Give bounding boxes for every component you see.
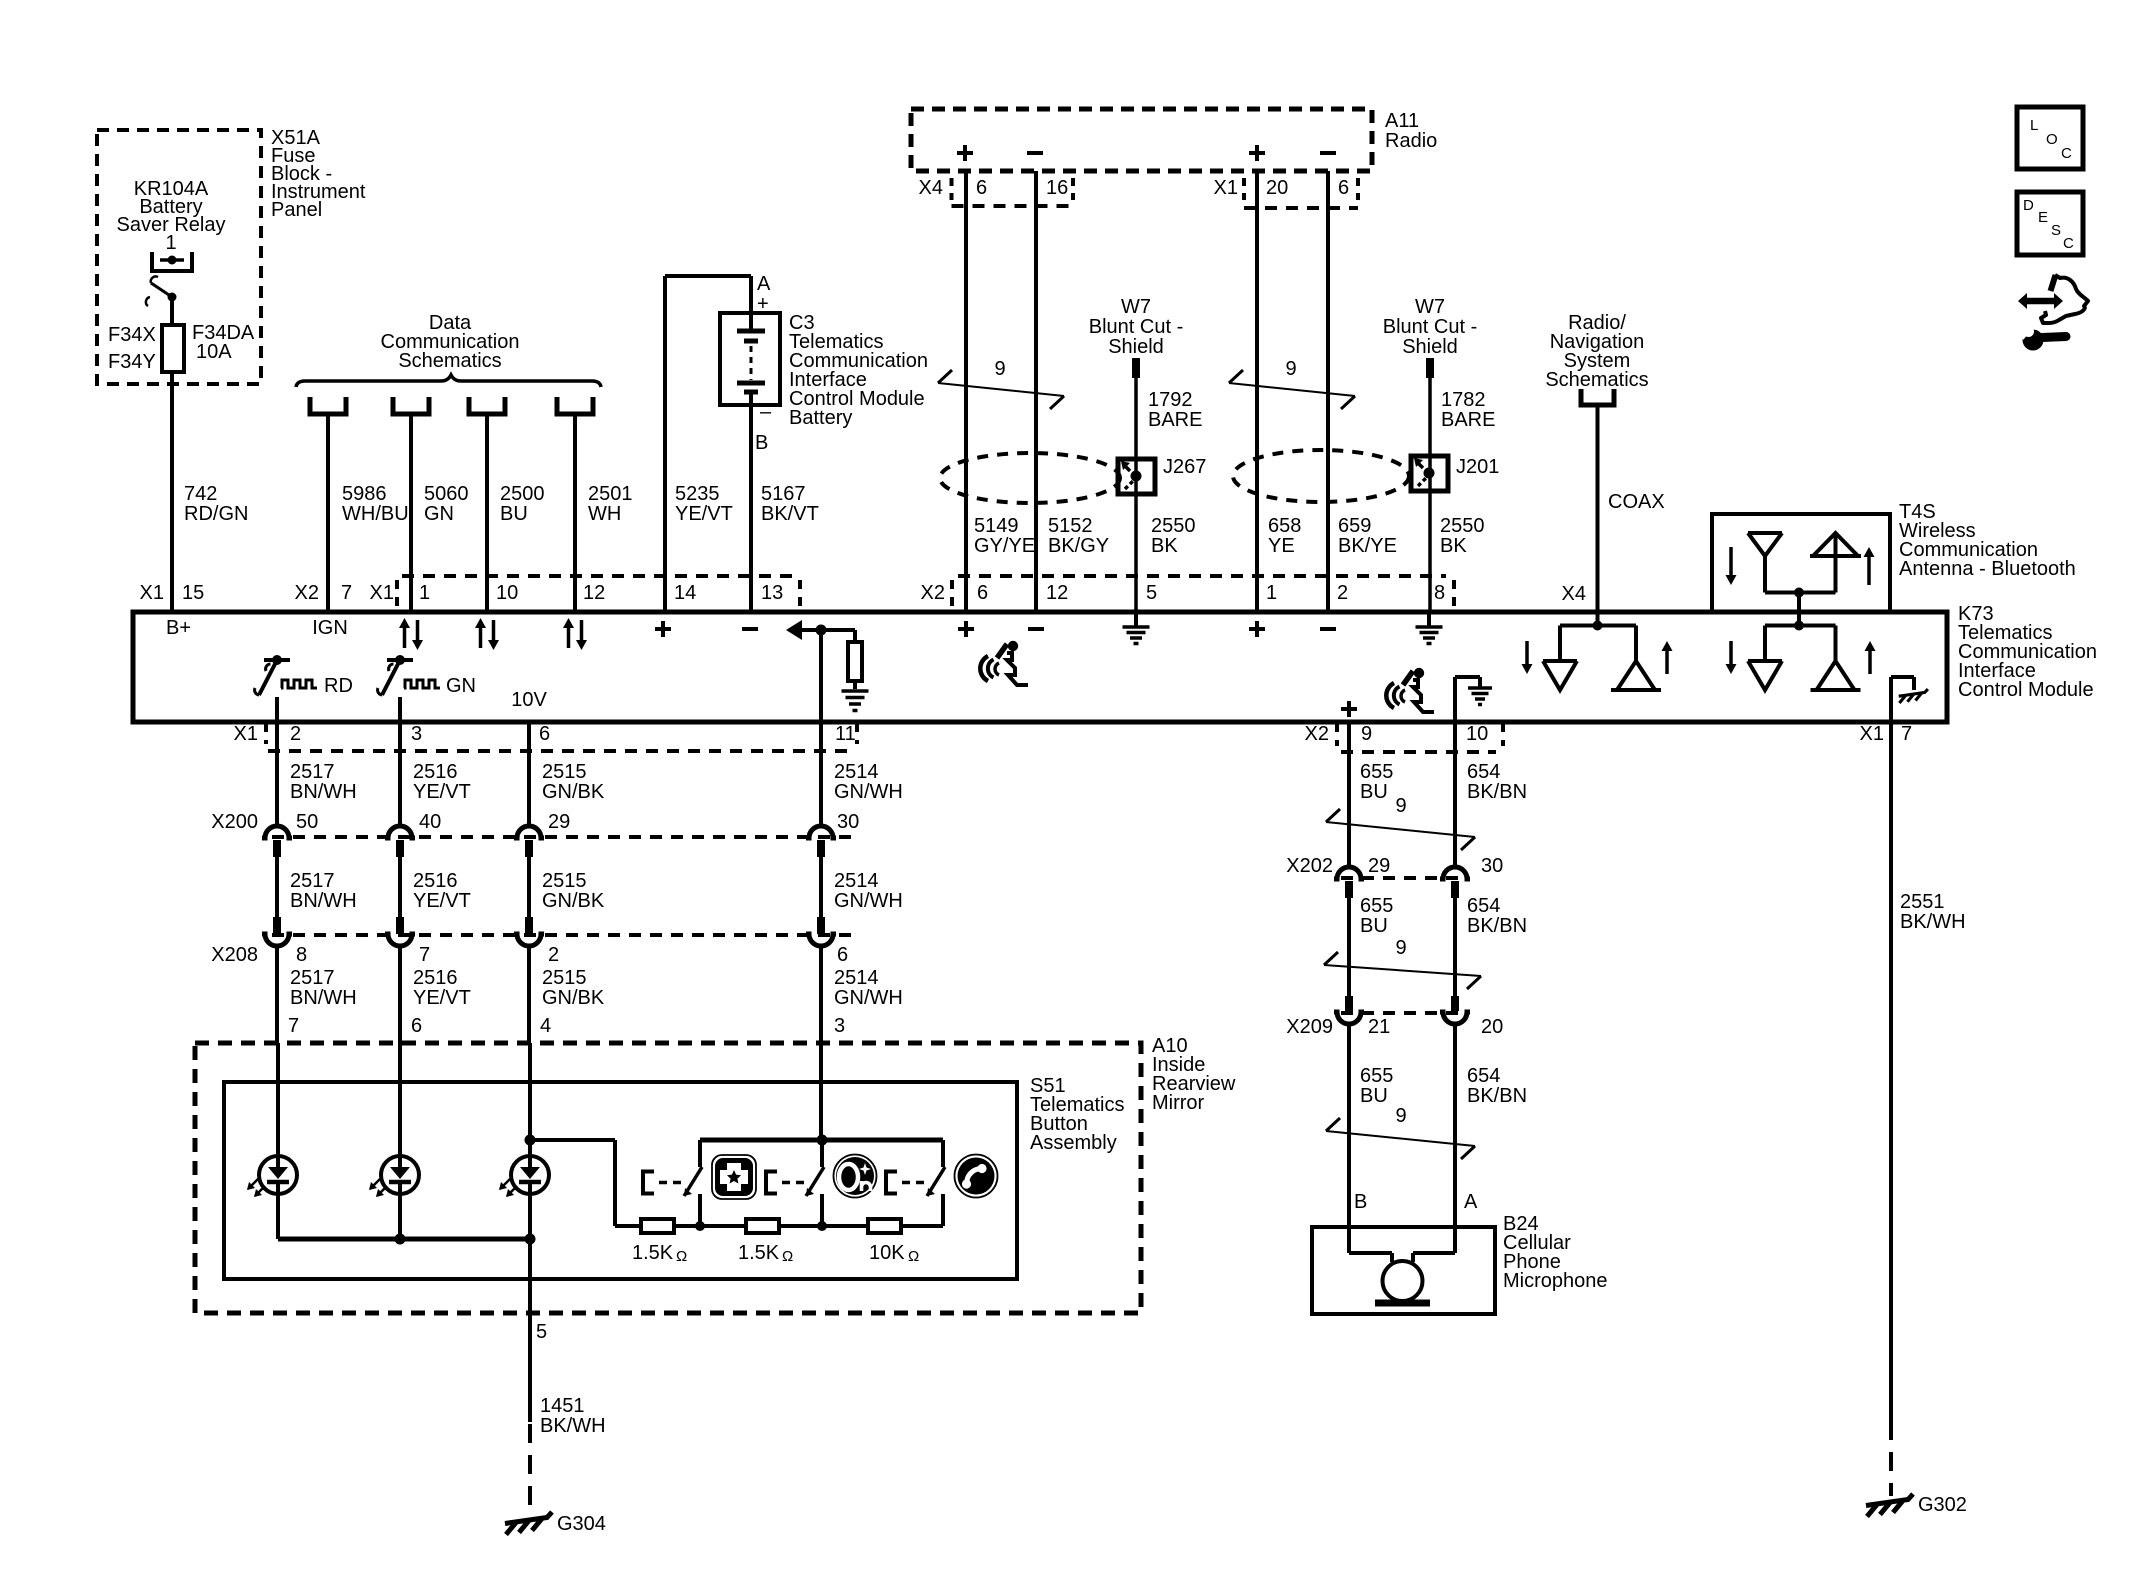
svg-text:1.5K: 1.5K — [632, 1242, 674, 1264]
svg-text:8: 8 — [1434, 582, 1445, 604]
svg-text:1: 1 — [419, 582, 430, 604]
svg-text:659: 659 — [1338, 515, 1371, 537]
svg-text:21: 21 — [1368, 1016, 1390, 1038]
svg-text:X2: X2 — [1305, 723, 1329, 745]
svg-text:50: 50 — [296, 811, 318, 833]
svg-text:7: 7 — [288, 1015, 299, 1037]
svg-text:7: 7 — [341, 582, 352, 604]
svg-text:WH/BU: WH/BU — [342, 503, 409, 525]
svg-text:6: 6 — [977, 582, 988, 604]
svg-text:BK/GY: BK/GY — [1048, 535, 1109, 557]
svg-text:2550: 2550 — [1151, 515, 1196, 537]
svg-text:GN/WH: GN/WH — [834, 987, 903, 1009]
svg-text:BK/BN: BK/BN — [1467, 781, 1527, 803]
svg-text:GN/BK: GN/BK — [542, 987, 605, 1009]
svg-text:6: 6 — [837, 944, 848, 966]
svg-text:D: D — [2023, 197, 2034, 214]
svg-text:YE/VT: YE/VT — [413, 987, 471, 1009]
svg-text:8: 8 — [296, 944, 307, 966]
svg-text:2501: 2501 — [588, 483, 633, 505]
svg-text:2514: 2514 — [834, 870, 879, 892]
svg-text:GN/BK: GN/BK — [542, 890, 605, 912]
svg-text:Schematics: Schematics — [398, 350, 501, 372]
svg-text:2515: 2515 — [542, 870, 587, 892]
svg-text:BK/YE: BK/YE — [1338, 535, 1397, 557]
svg-text:1.5K: 1.5K — [738, 1242, 780, 1264]
svg-text:YE: YE — [1268, 535, 1295, 557]
svg-text:IGN: IGN — [312, 617, 348, 639]
svg-text:1: 1 — [1266, 582, 1277, 604]
svg-text:16: 16 — [1046, 177, 1068, 199]
svg-text:Shield: Shield — [1402, 336, 1458, 358]
svg-text:Mirror: Mirror — [1152, 1092, 1205, 1114]
svg-text:2517: 2517 — [290, 761, 335, 783]
svg-text:E: E — [2038, 209, 2048, 226]
svg-text:BARE: BARE — [1441, 409, 1495, 431]
svg-text:2500: 2500 — [500, 483, 545, 505]
svg-text:2514: 2514 — [834, 967, 879, 989]
svg-text:Microphone: Microphone — [1503, 1270, 1608, 1292]
svg-text:BU: BU — [500, 503, 528, 525]
svg-text:1451: 1451 — [540, 1395, 585, 1417]
svg-text:G302: G302 — [1918, 1494, 1967, 1516]
svg-text:29: 29 — [1368, 855, 1390, 877]
svg-text:X2: X2 — [921, 582, 945, 604]
svg-text:Ω: Ω — [676, 1248, 687, 1265]
svg-text:X208: X208 — [211, 944, 258, 966]
svg-text:1792: 1792 — [1148, 389, 1193, 411]
svg-text:RD/GN: RD/GN — [184, 503, 248, 525]
svg-text:BN/WH: BN/WH — [290, 781, 357, 803]
svg-text:BK: BK — [1151, 535, 1178, 557]
svg-text:A: A — [1464, 1191, 1478, 1213]
svg-text:12: 12 — [1046, 582, 1068, 604]
svg-text:B: B — [1354, 1191, 1367, 1213]
svg-text:10K: 10K — [869, 1242, 905, 1264]
svg-text:X1: X1 — [1214, 177, 1238, 199]
svg-text:BK/BN: BK/BN — [1467, 1085, 1527, 1107]
svg-text:5167: 5167 — [761, 483, 806, 505]
svg-text:2: 2 — [1337, 582, 1348, 604]
svg-text:A: A — [757, 273, 771, 295]
svg-text:10A: 10A — [196, 341, 232, 363]
svg-text:BU: BU — [1360, 781, 1388, 803]
svg-text:GY/YE: GY/YE — [974, 535, 1035, 557]
svg-text:BU: BU — [1360, 915, 1388, 937]
svg-text:13: 13 — [761, 582, 783, 604]
svg-text:GN/WH: GN/WH — [834, 890, 903, 912]
svg-text:655: 655 — [1360, 895, 1393, 917]
svg-text:2517: 2517 — [290, 870, 335, 892]
svg-text:2515: 2515 — [542, 967, 587, 989]
svg-text:B+: B+ — [166, 617, 191, 639]
svg-text:3: 3 — [411, 723, 422, 745]
svg-text:BK/WH: BK/WH — [1900, 911, 1966, 933]
svg-text:BK: BK — [1440, 535, 1467, 557]
svg-text:X200: X200 — [211, 811, 258, 833]
svg-text:15: 15 — [182, 582, 204, 604]
svg-text:5: 5 — [1146, 582, 1157, 604]
svg-text:Ω: Ω — [908, 1248, 919, 1265]
svg-text:30: 30 — [1481, 855, 1503, 877]
svg-text:30: 30 — [837, 811, 859, 833]
svg-text:X4: X4 — [919, 177, 943, 199]
svg-text:2514: 2514 — [834, 761, 879, 783]
svg-text:9: 9 — [994, 358, 1005, 380]
svg-text:–: – — [760, 401, 772, 423]
svg-text:W7: W7 — [1415, 296, 1445, 318]
svg-text:Control Module: Control Module — [1958, 679, 2094, 701]
svg-text:RD: RD — [324, 675, 353, 697]
svg-text:2: 2 — [548, 944, 559, 966]
svg-text:GN: GN — [424, 503, 454, 525]
svg-text:C: C — [2063, 235, 2074, 252]
svg-text:6: 6 — [539, 723, 550, 745]
svg-text:654: 654 — [1467, 761, 1500, 783]
svg-text:3: 3 — [834, 1015, 845, 1037]
svg-text:5986: 5986 — [342, 483, 387, 505]
svg-text:O: O — [2046, 131, 2058, 148]
svg-text:10: 10 — [1466, 723, 1488, 745]
svg-text:5149: 5149 — [974, 515, 1019, 537]
svg-text:742: 742 — [184, 483, 217, 505]
svg-text:2516: 2516 — [413, 967, 458, 989]
svg-text:654: 654 — [1467, 1065, 1500, 1087]
svg-text:X1: X1 — [1860, 723, 1884, 745]
svg-text:6: 6 — [976, 177, 987, 199]
svg-text:5: 5 — [536, 1321, 547, 1343]
svg-text:6: 6 — [411, 1015, 422, 1037]
svg-text:5152: 5152 — [1048, 515, 1093, 537]
svg-text:B: B — [755, 432, 768, 454]
svg-text:40: 40 — [419, 811, 441, 833]
svg-text:GN/BK: GN/BK — [542, 781, 605, 803]
svg-text:Blunt Cut -: Blunt Cut - — [1383, 316, 1477, 338]
svg-text:9: 9 — [1361, 723, 1372, 745]
svg-text:Antenna - Bluetooth: Antenna - Bluetooth — [1899, 558, 2076, 580]
svg-text:10V: 10V — [511, 689, 547, 711]
svg-text:2516: 2516 — [413, 870, 458, 892]
svg-text:L: L — [2030, 117, 2038, 134]
svg-text:14: 14 — [674, 582, 696, 604]
svg-text:S: S — [2051, 222, 2061, 239]
svg-text:Shield: Shield — [1108, 336, 1164, 358]
svg-text:2516: 2516 — [413, 761, 458, 783]
svg-text:2551: 2551 — [1900, 891, 1945, 913]
svg-text:20: 20 — [1266, 177, 1288, 199]
svg-text:658: 658 — [1268, 515, 1301, 537]
svg-text:BK/BN: BK/BN — [1467, 915, 1527, 937]
svg-text:BK/VT: BK/VT — [761, 503, 819, 525]
svg-text:29: 29 — [548, 811, 570, 833]
svg-text:Assembly: Assembly — [1030, 1132, 1117, 1154]
svg-text:BU: BU — [1360, 1085, 1388, 1107]
svg-text:J267: J267 — [1163, 456, 1206, 478]
svg-text:655: 655 — [1360, 761, 1393, 783]
svg-text:X2: X2 — [295, 582, 319, 604]
svg-text:COAX: COAX — [1608, 491, 1665, 513]
svg-text:BN/WH: BN/WH — [290, 890, 357, 912]
svg-text:J201: J201 — [1456, 456, 1499, 478]
svg-text:655: 655 — [1360, 1065, 1393, 1087]
svg-text:X1: X1 — [140, 582, 164, 604]
svg-text:YE/VT: YE/VT — [413, 890, 471, 912]
svg-text:9: 9 — [1395, 795, 1406, 817]
svg-text:X4: X4 — [1562, 583, 1586, 605]
svg-text:GN: GN — [446, 675, 476, 697]
svg-text:F34Y: F34Y — [108, 351, 156, 373]
svg-text:BN/WH: BN/WH — [290, 987, 357, 1009]
svg-text:W7: W7 — [1121, 296, 1151, 318]
svg-text:2517: 2517 — [290, 967, 335, 989]
svg-text:Panel: Panel — [271, 199, 322, 221]
svg-text:WH: WH — [588, 503, 621, 525]
svg-text:2: 2 — [290, 723, 301, 745]
svg-text:Radio: Radio — [1385, 130, 1437, 152]
svg-text:F34X: F34X — [108, 324, 156, 346]
svg-text:A11: A11 — [1385, 110, 1419, 132]
svg-text:Schematics: Schematics — [1545, 369, 1648, 391]
svg-text:X1: X1 — [370, 582, 394, 604]
svg-text:7: 7 — [419, 944, 430, 966]
svg-text:5060: 5060 — [424, 483, 469, 505]
svg-text:Battery: Battery — [789, 407, 852, 429]
svg-text:1: 1 — [165, 232, 176, 254]
svg-text:5235: 5235 — [675, 483, 720, 505]
svg-text:1782: 1782 — [1441, 389, 1486, 411]
svg-text:YE/VT: YE/VT — [675, 503, 733, 525]
svg-text:2515: 2515 — [542, 761, 587, 783]
svg-text:BK/WH: BK/WH — [540, 1415, 606, 1437]
svg-text:BARE: BARE — [1148, 409, 1202, 431]
svg-text:654: 654 — [1467, 895, 1500, 917]
svg-text:2550: 2550 — [1440, 515, 1485, 537]
svg-text:7: 7 — [1901, 723, 1912, 745]
svg-text:12: 12 — [583, 582, 605, 604]
svg-text:9: 9 — [1395, 937, 1406, 959]
svg-text:6: 6 — [1338, 177, 1349, 199]
svg-text:20: 20 — [1481, 1016, 1503, 1038]
svg-text:Ω: Ω — [782, 1248, 793, 1265]
svg-text:10: 10 — [496, 582, 518, 604]
svg-text:X202: X202 — [1286, 855, 1333, 877]
svg-text:YE/VT: YE/VT — [413, 781, 471, 803]
svg-text:C: C — [2061, 145, 2072, 162]
svg-text:GN/WH: GN/WH — [834, 781, 903, 803]
svg-text:9: 9 — [1395, 1105, 1406, 1127]
svg-text:G304: G304 — [557, 1513, 606, 1535]
svg-text:+: + — [757, 293, 769, 315]
svg-text:Blunt Cut -: Blunt Cut - — [1089, 316, 1183, 338]
svg-text:X1: X1 — [234, 723, 258, 745]
svg-text:4: 4 — [540, 1015, 551, 1037]
svg-text:11: 11 — [835, 723, 856, 745]
svg-text:X209: X209 — [1286, 1016, 1333, 1038]
svg-text:9: 9 — [1285, 358, 1296, 380]
